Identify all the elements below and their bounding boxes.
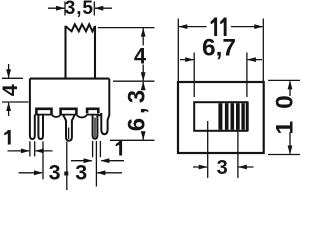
svg-text:3: 3: [49, 161, 61, 185]
svg-text:10: 10: [271, 83, 298, 134]
svg-text:4: 4: [134, 43, 147, 68]
svg-text:6,7: 6,7: [202, 34, 236, 61]
svg-text:3: 3: [75, 161, 87, 185]
svg-text:6,3: 6,3: [124, 86, 151, 131]
svg-text:3,5: 3,5: [65, 0, 94, 19]
svg-text:3: 3: [217, 157, 228, 179]
svg-text:4: 4: [0, 84, 22, 96]
